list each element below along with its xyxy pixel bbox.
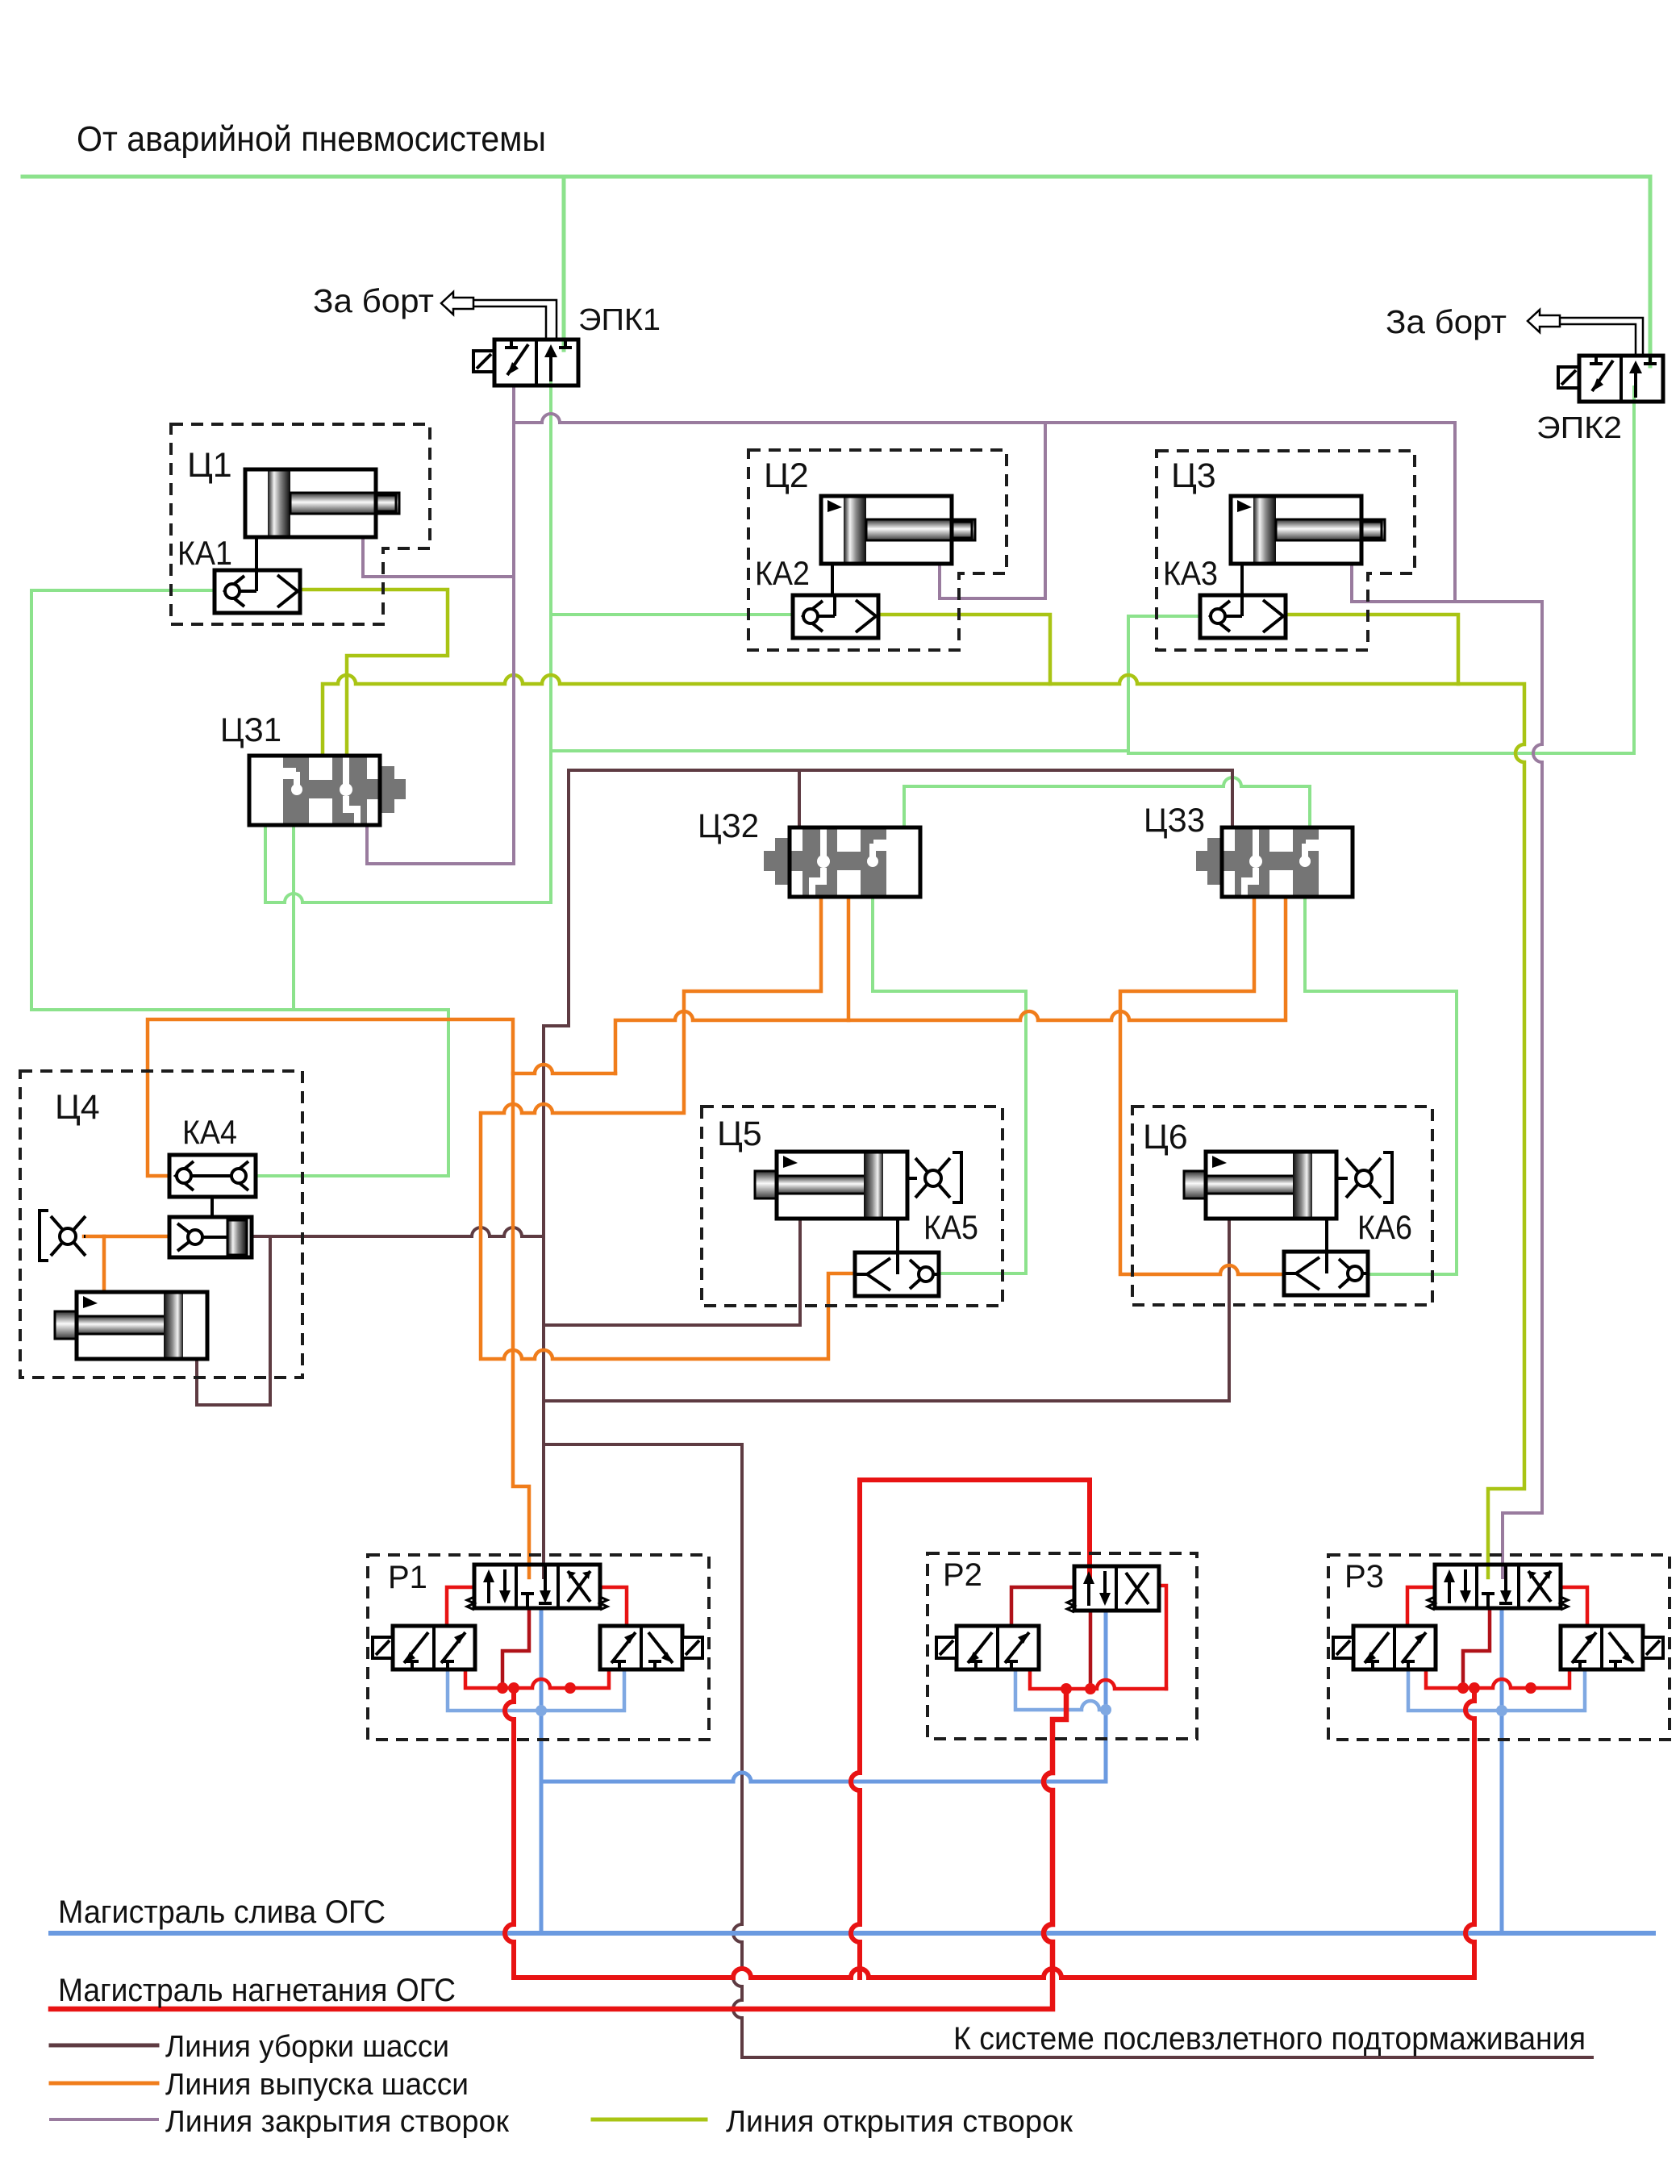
svg-text:Ц3: Ц3 xyxy=(1171,456,1216,495)
valve KA1 xyxy=(215,570,300,613)
svg-text:К системе послевзлетного подто: К системе послевзлетного подтормаживания xyxy=(953,2021,1586,2057)
svg-text:Линия закрытия створок: Линия закрытия створок xyxy=(165,2105,509,2139)
connector C5-KA5 xyxy=(896,1219,899,1252)
svg-text:КА6: КА6 xyxy=(1357,1208,1412,1246)
node: P2 blue junction xyxy=(1100,1704,1111,1715)
connector C1-KA1 xyxy=(255,537,258,570)
valve KA5 xyxy=(855,1252,939,1296)
wire: blue P3 down xyxy=(1500,1608,1504,1933)
wire: blue P3 cross link xyxy=(1408,1669,1585,1711)
wire: green CZ2 to KA5 xyxy=(873,890,1026,1273)
svg-text:От аварийной пневмосистемы: От аварийной пневмосистемы xyxy=(77,119,546,159)
valve KA6 xyxy=(1284,1252,1368,1295)
wire: dark red P1 valve drop xyxy=(502,1608,529,1688)
wire: orange net to P1 and KA4 xyxy=(148,1019,529,1578)
wire: olive door-opening trunk xyxy=(323,675,1524,1578)
dashed box C5/KA5 group xyxy=(702,1107,1003,1306)
dashed box C6/KA6 group xyxy=(1132,1107,1432,1305)
wire: green branch to KA2 xyxy=(551,613,793,616)
node: P3 bus junction c xyxy=(1525,1682,1536,1694)
svg-text:Ц2: Ц2 xyxy=(764,456,809,495)
svg-text:Р1: Р1 xyxy=(388,1560,427,1595)
wire: orange 1331 link xyxy=(513,1065,615,1073)
wire: red pressure trunk xyxy=(51,1689,1066,2009)
svg-text:ЦЗ3: ЦЗ3 xyxy=(1144,801,1205,839)
connector KA4 xyxy=(211,1197,214,1217)
node: P3 bus junction b xyxy=(1469,1682,1480,1694)
wire: orange CZ2 to KA5 xyxy=(481,890,855,1359)
dashed box C1/KA1 group xyxy=(171,424,430,624)
svg-text:КА1: КА1 xyxy=(177,534,232,572)
valve P1 right xyxy=(600,1626,702,1669)
wire: dark red P3 valve drop xyxy=(1463,1608,1490,1688)
wire: green drop to EPK1 xyxy=(562,177,566,350)
wire: green into lock cyl CZ1 xyxy=(265,823,551,902)
cylinder C1 xyxy=(245,469,399,537)
wire: blue P1 cross link xyxy=(448,1669,624,1711)
svg-text:За борт: За борт xyxy=(313,282,434,319)
valve P3 left xyxy=(1333,1626,1436,1669)
wire: orange 1265 header xyxy=(615,890,1286,1073)
wire: emergency pneumatic main line xyxy=(23,175,1650,179)
valve KA3 xyxy=(1200,595,1286,638)
wire: green KA1-KA4 line xyxy=(31,590,448,1176)
dashed box C2/KA2 group xyxy=(748,450,1007,650)
wire: brown trunk to C6 xyxy=(544,1218,1229,1401)
wire: green KA3 feed and EPK2 link xyxy=(1128,387,1634,753)
node: P1 bus junction a xyxy=(497,1682,508,1694)
valve KA4 lower xyxy=(169,1217,252,1257)
svg-text:ЭПК2: ЭПК2 xyxy=(1536,411,1622,445)
valve KA4 upper xyxy=(169,1155,256,1197)
wire: purple from C2 xyxy=(940,423,1045,598)
wire: orange CZ2 drop b xyxy=(847,890,851,1020)
svg-text:Р3: Р3 xyxy=(1344,1559,1384,1594)
wire: red P2 valve drop xyxy=(1089,1611,1093,1689)
svg-text:КА4: КА4 xyxy=(182,1113,237,1151)
svg-text:Линия открытия створок: Линия открытия створок xyxy=(726,2105,1073,2139)
valve EPK1 xyxy=(473,340,578,386)
wire: green drop to EPK2 xyxy=(1649,177,1653,366)
node: P2 bus junction b xyxy=(1085,1683,1096,1694)
cylinder C2 xyxy=(821,496,975,564)
wire: orange legend sample xyxy=(51,2082,157,2086)
wire: brown legend sample xyxy=(51,2044,157,2048)
bleed valve C6 xyxy=(1336,1152,1392,1202)
wire: purple from C1 xyxy=(363,537,514,577)
wire: olive from KA1 xyxy=(300,590,448,756)
wire: olive from KA2 xyxy=(878,615,1050,684)
wire: purple EPK1 to CZ1 xyxy=(367,386,514,864)
svg-text:За борт: За борт xyxy=(1386,303,1507,340)
wire: brown main vertical to P1 xyxy=(544,770,569,1578)
svg-text:Магистраль нагнетания ОГС: Магистраль нагнетания ОГС xyxy=(58,1973,456,2008)
wire: olive legend sample xyxy=(593,2118,706,2122)
svg-text:ЦЗ2: ЦЗ2 xyxy=(698,806,759,844)
wire: red P2 right loop xyxy=(1159,1586,1166,1689)
wire: brown from KA4 xyxy=(252,1227,544,1236)
bleed valve C4 xyxy=(40,1211,85,1261)
wire: green CZ2-CZ3 top link xyxy=(904,777,1310,827)
svg-text:КА5: КА5 xyxy=(923,1208,978,1246)
wire: brown drop to CZ3 xyxy=(1231,770,1234,827)
cylinder C3 xyxy=(1231,496,1385,564)
wire: red P1 left loop xyxy=(447,1587,474,1626)
wire: blue P1 down xyxy=(540,1608,544,1933)
wire: red P3 bus xyxy=(1426,1669,1570,1688)
svg-text:Линия уборки шасси: Линия уборки шасси xyxy=(165,2030,449,2064)
wire: blue P2 cross link xyxy=(1015,1670,1106,1710)
cylinder C6 xyxy=(1184,1152,1336,1219)
svg-text:Ц6: Ц6 xyxy=(1143,1118,1188,1157)
dashed box P2 group xyxy=(928,1553,1197,1739)
wire: orange CZ3 to KA6 xyxy=(1120,890,1284,1274)
svg-text:Ц5: Ц5 xyxy=(717,1115,762,1153)
valve P3 right xyxy=(1561,1626,1663,1669)
connector C2-KA2 xyxy=(831,564,834,595)
wire: blue P1-P2 jumper xyxy=(541,1773,1106,1782)
svg-text:Магистраль слива ОГС: Магистраль слива ОГС xyxy=(58,1894,386,1930)
wire: dark red P2 left loop xyxy=(1011,1587,1074,1626)
lock cylinder CZ1 xyxy=(249,756,406,825)
wire: purple from C3 xyxy=(1352,562,1455,602)
wire: olive from KA3 xyxy=(1285,615,1458,684)
cylinder C5 xyxy=(755,1152,907,1219)
wire: green long branch to KA3 node xyxy=(551,749,1128,752)
valve EPK2 xyxy=(1558,356,1663,402)
node: P1 bus junction b xyxy=(508,1682,519,1694)
svg-text:ЭПК1: ЭПК1 xyxy=(578,303,661,337)
dashed box C3/KA3 group xyxy=(1157,451,1415,650)
wire: green EPK1 output down xyxy=(549,373,552,902)
wire: red P1-P2-P3 link xyxy=(505,1688,1474,1978)
valve P2 main xyxy=(1067,1566,1159,1612)
svg-text:Р2: Р2 xyxy=(943,1557,982,1593)
svg-text:Линия выпуска шасси: Линия выпуска шасси xyxy=(165,2068,469,2102)
wire: blue P2 down xyxy=(1104,1611,1108,1782)
lock cylinder CZ3 xyxy=(1196,827,1353,897)
connector C3-KA3 xyxy=(1240,564,1244,595)
wire: brown branch to braking system xyxy=(544,1444,1592,2057)
dashed box P3 group xyxy=(1328,1555,1670,1740)
node: P1 bus junction c xyxy=(565,1682,576,1694)
wire: orange C4 top feed xyxy=(102,1236,106,1292)
wire: red P3 left loop xyxy=(1407,1587,1435,1626)
node: P3 bus junction a xyxy=(1457,1682,1469,1694)
valve P3 main xyxy=(1428,1565,1568,1610)
node: P3 blue junction xyxy=(1496,1705,1507,1716)
connector C6-KA6 xyxy=(1325,1218,1328,1252)
bleed valve C5 xyxy=(907,1152,961,1202)
svg-text:Ц4: Ц4 xyxy=(55,1088,100,1127)
wire: green CZ1 second port xyxy=(292,823,295,1010)
dashed box P1 group xyxy=(368,1555,709,1740)
wire: red feed to P2 top xyxy=(851,1480,1090,1978)
valve P2 left xyxy=(936,1626,1039,1669)
valve KA2 xyxy=(793,595,878,638)
wire: red P3 right loop xyxy=(1561,1587,1587,1626)
svg-text:Ц1: Ц1 xyxy=(187,446,232,485)
cylinder C4 xyxy=(55,1292,207,1359)
wire: orange C4 bleed link xyxy=(84,1235,169,1239)
node: P1 blue junction xyxy=(536,1705,547,1716)
dashed box C4/KA4 group xyxy=(20,1071,302,1378)
lock cylinder CZ2 xyxy=(764,827,920,897)
wire: brown top header CZ2-CZ3 xyxy=(569,769,1232,772)
valve P1 main xyxy=(467,1565,607,1610)
wire: green CZ3 to KA6 xyxy=(1305,890,1457,1274)
node: P2 bus junction a xyxy=(1061,1683,1072,1694)
wire: red P1 right loop xyxy=(600,1587,627,1626)
svg-text:ЦЗ1: ЦЗ1 xyxy=(220,711,281,748)
wire: red P2 bus xyxy=(1030,1670,1166,1689)
wire: brown from C5 xyxy=(544,1219,800,1325)
svg-text:КА3: КА3 xyxy=(1163,554,1218,592)
wire: purple legend sample xyxy=(51,2118,157,2121)
svg-text:КА2: КА2 xyxy=(755,554,810,592)
vent line EPK2 overboard xyxy=(1528,310,1643,356)
valve P1 left xyxy=(373,1626,475,1669)
wire: brown KA4 cylinder loop xyxy=(197,1236,270,1405)
vent line EPK1 overboard xyxy=(441,292,557,340)
wire: brown drop to CZ2 xyxy=(798,770,801,827)
wire: red P1 bus xyxy=(465,1669,609,1688)
wire: purple trunk to P3 xyxy=(514,414,1542,1578)
wire: blue drain trunk xyxy=(51,1931,1653,1936)
